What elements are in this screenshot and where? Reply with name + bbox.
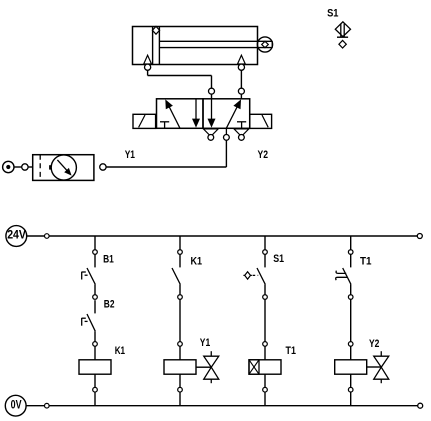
svg-text:B1: B1 xyxy=(103,254,114,266)
svg-text:T1: T1 xyxy=(286,345,296,357)
svg-text:T1: T1 xyxy=(360,256,372,268)
svg-text:Y2: Y2 xyxy=(369,338,379,350)
svg-text:Y2: Y2 xyxy=(258,149,269,161)
svg-text:Y1: Y1 xyxy=(125,149,135,161)
svg-text:S1: S1 xyxy=(327,7,338,19)
svg-text:Y1: Y1 xyxy=(200,337,210,349)
svg-text:24V: 24V xyxy=(7,228,26,242)
svg-text:K1: K1 xyxy=(115,345,125,357)
svg-text:B2: B2 xyxy=(104,299,115,311)
svg-text:K1: K1 xyxy=(191,256,203,268)
svg-text:0V: 0V xyxy=(11,398,22,412)
svg-text:S1: S1 xyxy=(273,253,284,265)
